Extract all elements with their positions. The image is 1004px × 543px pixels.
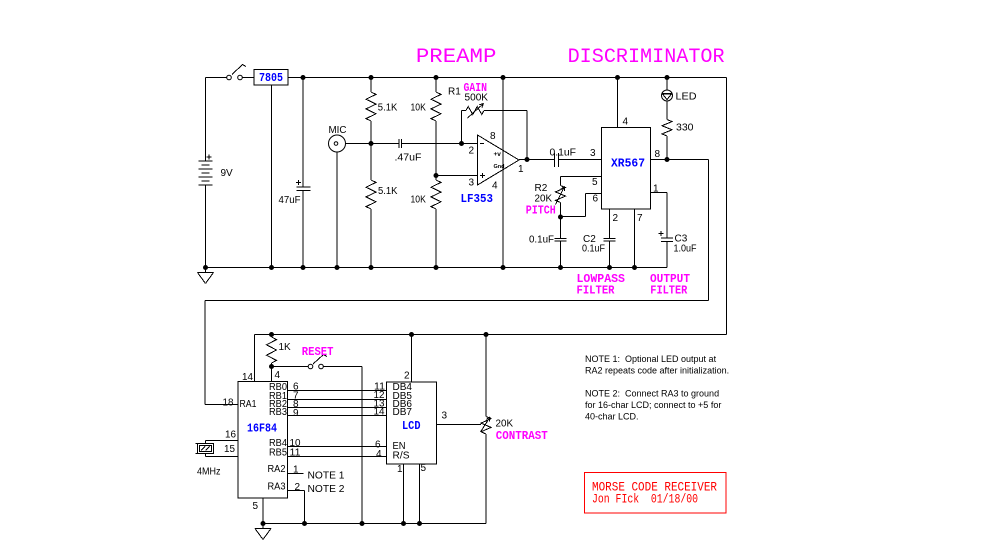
svg-text:RA2 repeats code after initial: RA2 repeats code after initialization. (585, 366, 729, 376)
svg-text:4: 4 (376, 449, 382, 460)
junction dots discriminator nodes (558, 157, 670, 220)
svg-text:2: 2 (404, 371, 410, 382)
svg-text:R2: R2 (535, 183, 548, 194)
wire +5V top rail (288, 77, 727, 79)
svg-text:4: 4 (623, 117, 629, 128)
svg-text:NOTE 1: NOTE 1 (308, 471, 345, 482)
XR567 pin 5 wire (561, 177, 602, 189)
junction dots preamp nodes (369, 141, 530, 178)
svg-text:XR567: XR567 (611, 157, 645, 171)
svg-text:330: 330 (676, 123, 694, 134)
wire XR567 output to PIC RA1 (205, 160, 709, 405)
capacitor .47uF coupling (371, 139, 478, 164)
svg-text:RA3: RA3 (268, 482, 286, 493)
XR567 pin 7 ground wire (635, 209, 644, 268)
section title DISCRIMINATOR (568, 46, 725, 69)
XR567 pin 6 wire (561, 194, 602, 217)
junction dots ground rail bottom (261, 521, 423, 526)
potentiometer 20K CONTRAST (481, 335, 548, 524)
PIC wires RB4 RB5 to LCD EN RS (269, 438, 410, 462)
junction dots top rail (301, 75, 670, 80)
svg-text:Jon FIck 01/18/00: Jon FIck 01/18/00 (592, 493, 698, 507)
svg-text:0.1uF: 0.1uF (550, 148, 577, 159)
LED (662, 78, 697, 103)
capacitor 0.1uF lowpass filter (529, 217, 567, 268)
PIC port wires RB0-RB3 to LCD data (269, 382, 412, 420)
resistor 10K lower (411, 176, 442, 268)
svg-text:1K: 1K (279, 342, 292, 353)
svg-text:9V: 9V (221, 168, 234, 179)
svg-text:16: 16 (225, 430, 236, 441)
svg-text:0.1uF: 0.1uF (529, 235, 554, 246)
svg-text:6: 6 (593, 194, 599, 205)
svg-text:7: 7 (637, 213, 643, 224)
svg-text:40-char LCD.: 40-char LCD. (585, 412, 639, 422)
svg-text:NOTE 2: NOTE 2 (308, 484, 345, 495)
svg-text:PITCH: PITCH (526, 204, 556, 218)
wire LCD pin 5 ground (420, 463, 427, 524)
XR567 pin 8 output wire (651, 149, 709, 160)
wire 7805 ground pin (271, 85, 273, 268)
svg-text:8: 8 (655, 149, 661, 160)
svg-text:15: 15 (224, 444, 235, 455)
svg-text:NOTE 1: Optional LED output a: NOTE 1: Optional LED output at (585, 354, 717, 364)
wire PIC pin 5 ground (253, 498, 264, 524)
svg-text:FILTER: FILTER (650, 284, 688, 298)
svg-text:R1: R1 (448, 87, 461, 98)
svg-text:RESET: RESET (302, 345, 334, 359)
wire +5V rail bottom section (255, 334, 727, 336)
svg-text:1: 1 (518, 164, 524, 175)
svg-text:5: 5 (421, 463, 427, 474)
battery 9V (199, 78, 234, 268)
svg-text:2: 2 (613, 213, 619, 224)
capacitor C3 1.0uF output filter (651, 184, 697, 268)
svg-text:10K: 10K (411, 195, 427, 206)
svg-text:RB5: RB5 (269, 448, 287, 459)
svg-text:LF353: LF353 (461, 192, 494, 206)
IC U4 LCD module (387, 382, 437, 464)
ground symbol top-left (198, 268, 214, 284)
note 2 text (585, 389, 721, 422)
note 1 text (585, 354, 729, 376)
svg-text:5: 5 (592, 177, 598, 188)
svg-text:16F84: 16F84 (247, 422, 277, 436)
junction dots +5V rail bottom (269, 332, 489, 337)
capacitor 0.1uF coupling to XR567 (550, 148, 602, 168)
XR567 pin 3 label (590, 148, 596, 159)
label LOWPASS FILTER (577, 272, 626, 298)
resistor 1K pull-up (267, 335, 292, 367)
svg-text:18: 18 (223, 398, 234, 409)
svg-text:1.0uF: 1.0uF (674, 244, 697, 255)
svg-text:5: 5 (253, 501, 259, 512)
svg-text:7805: 7805 (259, 71, 283, 85)
wire ground rail top section (206, 267, 668, 269)
ground symbol bottom (255, 524, 271, 540)
svg-text:1: 1 (653, 184, 659, 195)
svg-text:5.1K: 5.1K (378, 186, 398, 197)
wire PIC RA3 note 2 to ground (268, 482, 345, 524)
svg-text:MIC: MIC (329, 125, 347, 136)
junction dots ground rail top (203, 265, 637, 270)
svg-text:14: 14 (374, 407, 385, 418)
wire op-amp output (519, 159, 555, 161)
label OUTPUT FILTER (650, 272, 690, 298)
svg-text:for 16-char LCD; connect to +5: for 16-char LCD; connect to +5 for (585, 400, 721, 410)
resistor 10K upper (411, 78, 442, 176)
potentiometer R1 500K GAIN feedback (448, 81, 527, 160)
svg-text:5.1K: 5.1K (378, 103, 398, 114)
resistor 5.1K lower (366, 144, 398, 268)
svg-text:LED: LED (676, 92, 697, 103)
svg-text:1: 1 (293, 465, 299, 476)
svg-text:RB3: RB3 (269, 407, 287, 418)
svg-text:4: 4 (492, 181, 498, 192)
wire op-amp pin3 input (436, 175, 478, 177)
wire PIC pin 18 RA1 label (223, 398, 234, 409)
svg-text:NOTE 2: Connect RA3 to ground: NOTE 2: Connect RA3 to ground (585, 389, 719, 399)
svg-text:4: 4 (275, 370, 281, 381)
svg-text:2: 2 (295, 482, 301, 493)
svg-text:2: 2 (469, 146, 475, 157)
svg-text:PREAMP: PREAMP (416, 46, 497, 69)
microphone MIC (329, 125, 372, 268)
resistor 5.1K upper (366, 78, 398, 144)
svg-text:.47uF: .47uF (395, 153, 422, 164)
op-amp U1 LF353 (461, 78, 525, 268)
svg-text:1: 1 (397, 464, 403, 475)
switch RESET (272, 345, 363, 524)
svg-text:Gnd: Gnd (494, 164, 505, 170)
XR567 pin 4 supply wire (618, 78, 629, 128)
title block MORSE CODE RECEIVER (585, 473, 727, 514)
svg-text:3: 3 (590, 148, 596, 159)
svg-text:RA1: RA1 (240, 399, 257, 410)
svg-text:FILTER: FILTER (577, 284, 616, 298)
wire LCD pin 2 Vdd (404, 335, 412, 383)
svg-text:R/S: R/S (393, 451, 410, 462)
switch S1 power (206, 65, 255, 80)
svg-text:+v: +v (494, 151, 502, 158)
wire PIC pin 14 Vdd (242, 335, 255, 384)
svg-text:CONTRAST: CONTRAST (496, 429, 548, 443)
svg-text:11: 11 (290, 448, 301, 459)
svg-text:20K: 20K (496, 419, 514, 430)
IC U2 XR567 tone decoder (602, 128, 651, 210)
wire ground rail bottom section (263, 523, 486, 525)
capacitor C2 0.1uF (582, 209, 619, 268)
wire PIC RA2 note 1 (268, 464, 345, 482)
svg-text:DISCRIMINATOR: DISCRIMINATOR (568, 46, 725, 69)
regulator 7805 (254, 70, 288, 86)
junction dot reset node (269, 364, 274, 369)
svg-text:GAIN: GAIN (464, 81, 488, 95)
svg-text:47uF: 47uF (279, 195, 301, 206)
svg-text:LCD: LCD (402, 419, 421, 433)
svg-text:10K: 10K (411, 103, 427, 114)
crystal 4MHz (196, 430, 239, 478)
wire +5V right side feed (726, 78, 728, 335)
svg-text:0.1uF: 0.1uF (582, 244, 605, 255)
svg-text:DB7: DB7 (393, 407, 413, 418)
wire LCD pin 1 ground (397, 464, 404, 524)
svg-text:9: 9 (293, 408, 299, 419)
svg-text:3: 3 (469, 178, 475, 189)
svg-text:4MHz: 4MHz (197, 467, 221, 478)
svg-text:3: 3 (442, 411, 448, 422)
capacitor 47uF (279, 78, 311, 268)
svg-text:RA2: RA2 (268, 464, 286, 475)
IC U3 16F84 PIC microcontroller (238, 382, 288, 499)
svg-text:8: 8 (490, 131, 496, 142)
section title PREAMP (416, 46, 497, 69)
potentiometer R2 20K PITCH (526, 183, 566, 218)
wire LCD pin 3 contrast (437, 411, 482, 425)
resistor 330 (662, 101, 694, 160)
wire PIC pin 4 MCLR (272, 367, 281, 382)
